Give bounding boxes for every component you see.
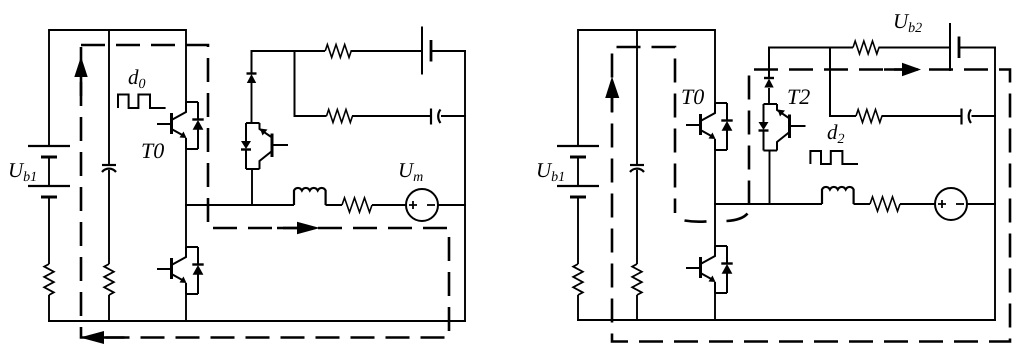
wire: right rail middle — [714, 150, 716, 246]
wire: right cap branch lower — [636, 170, 638, 264]
wire: left clamp branch bottom — [251, 169, 253, 206]
wire: left snubber T-branch — [295, 51, 327, 116]
resistor: right battery branch — [573, 264, 583, 295]
wire: left right rail — [464, 51, 466, 322]
wire: right mid a — [854, 203, 871, 205]
IGBT lower (right) — [686, 246, 733, 293]
resistor: right snubber bottom — [856, 110, 882, 123]
wire: right rail bottom — [714, 293, 716, 321]
wire: right snubber top c — [959, 47, 996, 49]
svg-text:T0: T0 — [141, 138, 164, 163]
capacitor (right snubber) — [962, 109, 972, 125]
battery U_b2 — [950, 23, 959, 71]
svg-text:Ub1: Ub1 — [536, 158, 565, 185]
pulse waveform d2 — [810, 151, 858, 164]
wire: left clamp branch mid — [251, 83, 253, 123]
resistor: left battery branch — [44, 264, 54, 295]
wire: left snubber top a — [251, 50, 326, 52]
resistor: left cap branch — [104, 264, 114, 295]
IGBT T0 upper (left) — [157, 102, 204, 149]
wire: left battery branch bottom — [48, 295, 50, 322]
wire: right clamp branch bottom — [769, 151, 771, 206]
wire: right mid c — [967, 203, 996, 205]
dashed current loop (left) — [81, 45, 449, 338]
wire: right battery branch upper — [577, 29, 579, 146]
wire: right clamp branch mid — [768, 88, 770, 104]
diode D1 (left clamp) — [247, 74, 257, 84]
arrow up (left loop) — [74, 57, 87, 97]
battery (left snubber) — [422, 27, 431, 75]
svg-text:Ub1: Ub1 — [8, 158, 37, 185]
wire: left rail middle — [185, 149, 187, 247]
svg-text:d0: d0 — [128, 65, 146, 92]
IGBT lower (left) — [157, 247, 204, 294]
svg-text:Um: Um — [398, 158, 423, 185]
source circle (right) — [935, 188, 967, 220]
inductor (left) — [294, 188, 326, 205]
wire: right snubber top a — [768, 47, 853, 49]
wire: right cap branch upper — [636, 29, 638, 165]
inductor (right) — [822, 187, 854, 204]
dashed current loop (right) — [612, 47, 1010, 342]
wire: right midpoint — [714, 203, 822, 205]
IGBT T0 upper (right) — [686, 103, 733, 150]
pulse waveform d0 — [118, 95, 166, 109]
svg-text:Ub2: Ub2 — [893, 9, 922, 36]
source U_m circle — [406, 189, 438, 221]
IGBT T2 — [759, 104, 806, 151]
battery Ub1 (left) — [28, 146, 70, 197]
wire: right bottom rail — [577, 319, 996, 321]
wire: left battery branch lower — [48, 197, 50, 264]
wire: right snubber T-branch — [830, 48, 856, 117]
wire: left top rail — [49, 29, 186, 31]
wire: right clamp branch top — [768, 48, 770, 78]
wire: left mid c — [438, 204, 466, 206]
wire: left snubber bot c — [441, 115, 466, 117]
arrow left (left loop) — [80, 331, 125, 344]
resistor: right mid — [870, 197, 900, 211]
wire: right snubber bot c — [972, 115, 997, 117]
wire: right battery branch lower — [577, 197, 579, 264]
wire: left snubber bot b — [352, 115, 431, 117]
arrow right (right loop) — [884, 63, 921, 77]
capacitor: right dc-link — [630, 165, 644, 172]
wire: left cap branch bottom — [108, 295, 110, 322]
arrow right (left loop) — [277, 222, 320, 234]
wire: right cap branch bottom — [636, 295, 638, 321]
svg-text:d2: d2 — [827, 120, 845, 147]
wire: right battery branch bottom — [577, 295, 579, 321]
wire: left mid b — [372, 204, 406, 206]
resistor: left mid — [342, 198, 372, 212]
resistor: right snubber top — [853, 41, 879, 54]
wire: right right rail — [994, 48, 996, 322]
wire: left mid a — [326, 204, 343, 206]
wire: left clamp branch top — [251, 51, 253, 73]
wire: left rail bottom — [185, 294, 187, 322]
IGBT clamp (left) — [241, 123, 288, 169]
wire: left snubber top c — [431, 50, 466, 52]
wire: right snubber bot b — [882, 115, 962, 117]
resistor: right cap branch — [632, 264, 642, 295]
capacitor: left dc-link — [102, 165, 116, 172]
dashed hop segment a (right loop) — [685, 221, 707, 222]
resistor: left snubber top — [325, 45, 351, 58]
capacitor (left snubber) — [431, 109, 441, 125]
wire: left cap branch lower — [108, 170, 110, 264]
wire: left midpoint — [185, 204, 294, 206]
wire: right mid b — [900, 203, 935, 205]
dashed hop segment b (right loop) — [727, 214, 748, 222]
svg-text:T2: T2 — [787, 84, 810, 109]
battery Ub1 (right) — [557, 146, 599, 197]
wire: left cap branch upper — [108, 29, 110, 165]
wire: right snubber top b — [879, 47, 951, 49]
svg-text:T0: T0 — [681, 84, 704, 109]
wire: right rail top — [714, 29, 716, 103]
resistor: left snubber bottom — [327, 110, 353, 123]
wire: left snubber top b — [351, 50, 423, 52]
wire: left bottom rail — [48, 320, 466, 322]
wire: left rail top — [185, 29, 187, 102]
wire: right top rail — [578, 29, 715, 31]
arrow up (right loop) — [605, 77, 619, 113]
diode D1 (T2 branch) — [764, 78, 774, 88]
wire: left battery branch upper — [48, 29, 50, 146]
